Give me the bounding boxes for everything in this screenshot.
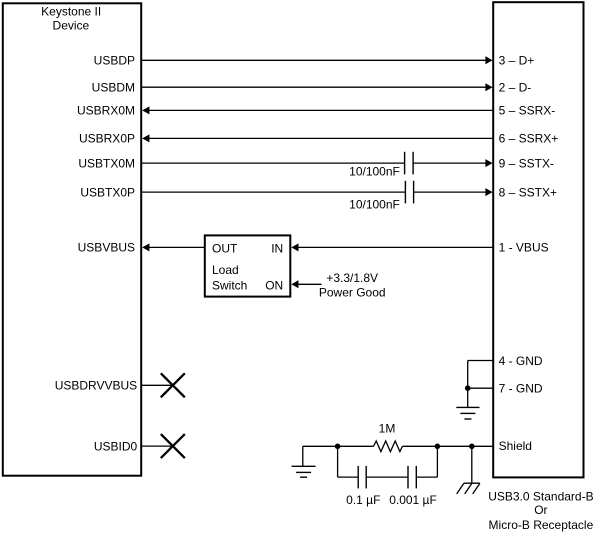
USB3.0 receptacle box [488, 2, 593, 532]
junction C [469, 444, 475, 450]
svg-text:Shield: Shield [499, 439, 532, 453]
net label +3.3/1.8V Power Good [319, 271, 386, 299]
svg-text:Or: Or [534, 503, 547, 517]
svg-text:9 – SSTX-: 9 – SSTX- [499, 156, 554, 170]
svg-text:7 - GND: 7 - GND [499, 382, 543, 396]
svg-text:+3.3/1.8V: +3.3/1.8V [326, 271, 378, 285]
svg-text:ON: ON [265, 278, 283, 292]
svg-text:Device: Device [53, 18, 90, 32]
no-connect X USBID0 [161, 434, 185, 458]
svg-text:3 – D+: 3 – D+ [499, 54, 535, 68]
no-connect X USBDRVVBUS [161, 373, 185, 397]
svg-text:IN: IN [271, 242, 283, 256]
capacitor C4 0.001uF [389, 466, 437, 507]
wire GND vertical [467, 361, 469, 408]
wire load switch OUT to USBVBUS [142, 243, 205, 251]
svg-text:USBID0: USBID0 [94, 439, 138, 453]
svg-text:10/100nF: 10/100nF [349, 165, 400, 179]
svg-text:USBTX0P: USBTX0P [80, 185, 135, 199]
svg-text:0.001 µF: 0.001 µF [389, 493, 437, 507]
svg-text:8 – SSTX+: 8 – SSTX+ [499, 185, 557, 199]
svg-text:Load: Load [212, 263, 239, 277]
wire shield right segment [402, 445, 493, 447]
svg-text:6 – SSRX+: 6 – SSRX+ [499, 132, 559, 146]
svg-text:10/100nF: 10/100nF [349, 197, 400, 211]
wire USBDM to 2-D- [141, 83, 493, 91]
wire cap branch bottom left [338, 476, 359, 478]
svg-text:USBDM: USBDM [92, 81, 135, 95]
wire USBDRVVBUS stub [141, 384, 173, 386]
junction GND [465, 385, 471, 391]
svg-text:OUT: OUT [212, 242, 238, 256]
svg-text:USBTX0M: USBTX0M [78, 156, 135, 170]
ground GND2 [292, 466, 316, 477]
svg-text:Switch: Switch [212, 278, 247, 292]
svg-text:USBVBUS: USBVBUS [78, 241, 135, 255]
capacitor C3 0.1uF [346, 466, 380, 507]
svg-text:Power Good: Power Good [319, 285, 386, 299]
wire cap branch left vertical [337, 446, 339, 477]
wire USBTX0P to capacitor [141, 191, 405, 193]
svg-text:USBRX0P: USBRX0P [79, 132, 135, 146]
wire shield left segment [303, 445, 374, 447]
svg-text:USB3.0 Standard-B: USB3.0 Standard-B [488, 490, 593, 504]
svg-text:Micro-B Receptacle: Micro-B Receptacle [489, 518, 594, 532]
svg-text:4 - GND: 4 - GND [499, 354, 543, 368]
svg-text:USBDRVVBUS: USBDRVVBUS [55, 379, 137, 393]
wire cap branch right vertical [436, 446, 438, 477]
junction A [335, 444, 341, 450]
capacitor C1 10/100nF [349, 152, 413, 179]
wire 4-GND [468, 360, 494, 362]
wire capacitor to 9-SSTX- [413, 159, 493, 167]
wire cap branch bottom right [416, 476, 437, 478]
Keystone II Device box [3, 3, 141, 475]
wire power good to load switch ON [291, 280, 321, 288]
resistor R1 1M [374, 421, 403, 451]
wire cap branch middle [366, 476, 408, 478]
svg-text:USBRX0M: USBRX0M [77, 104, 135, 118]
wire capacitor to 8-SSTX+ [414, 188, 493, 196]
wire shield left drop [302, 446, 304, 466]
svg-text:1M: 1M [379, 421, 396, 435]
svg-text:2 – D-: 2 – D- [499, 81, 532, 95]
capacitor C2 10/100nF [349, 181, 413, 212]
svg-text:Keystone II: Keystone II [41, 5, 101, 19]
ground GND1 [456, 407, 479, 419]
svg-text:5 – SSRX-: 5 – SSRX- [499, 104, 556, 118]
wire 5-SSRX- to USBRX0M [142, 106, 493, 114]
wire 6-SSRX+ to USBRX0P [142, 134, 493, 142]
chassis ground [457, 483, 480, 494]
junction B [435, 444, 441, 450]
wire USBID0 stub [141, 445, 173, 447]
svg-text:USBDP: USBDP [94, 54, 135, 68]
wire chassis drop [471, 446, 473, 483]
svg-text:0.1 µF: 0.1 µF [346, 493, 380, 507]
wire USBDP to 3-D+ [141, 56, 493, 64]
svg-text:1 - VBUS: 1 - VBUS [499, 241, 549, 255]
load switch U1 [205, 235, 290, 296]
wire 1-VBUS to load switch IN [291, 243, 493, 251]
wire USBTX0M to capacitor [141, 162, 405, 164]
wire 7-GND [468, 387, 494, 389]
